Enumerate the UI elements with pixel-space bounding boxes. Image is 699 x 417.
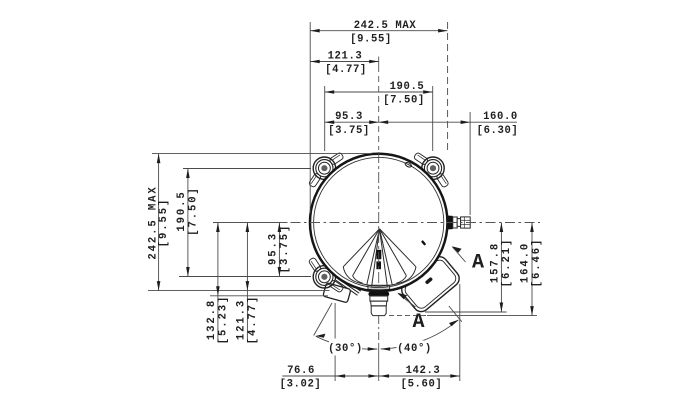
dimension line 76.6 + 142.3 (bottom) xyxy=(282,375,460,377)
svg-text:[3.02]: [3.02] xyxy=(280,379,322,391)
dimension line 242.5 MAX (top) xyxy=(310,30,447,32)
hidden bold dashes on axis xyxy=(376,250,381,259)
svg-text:242.5 MAX: 242.5 MAX xyxy=(354,20,417,32)
DIMENSIONS xyxy=(148,22,537,381)
angle arc arrows xyxy=(368,347,378,351)
suction stub fitting (bottom center) xyxy=(368,285,390,315)
dimension line 242.5 MAX (left vertical) xyxy=(158,154,160,291)
svg-text:[3.75]: [3.75] xyxy=(328,125,370,137)
angle dimension arc (30 deg) xyxy=(316,336,377,349)
svg-text:[6.46]: [6.46] xyxy=(531,238,543,288)
svg-text:121.3: 121.3 xyxy=(235,299,247,340)
bottom 76.6 xyxy=(335,374,345,378)
svg-text:[9.55]: [9.55] xyxy=(350,34,392,46)
svg-text:A: A xyxy=(412,311,424,334)
svg-text:132.8: 132.8 xyxy=(206,299,218,340)
svg-text:76.6: 76.6 xyxy=(287,365,315,377)
terminal box (40 deg position) xyxy=(395,249,463,315)
164.0 v xyxy=(530,223,534,233)
157.8 v xyxy=(500,223,504,233)
svg-text:157.8: 157.8 xyxy=(489,242,501,283)
section arrows A xyxy=(452,246,462,253)
extension line: shell right edge x=447.6 (dashed) xyxy=(447,22,449,150)
shell interior white fill xyxy=(311,155,446,290)
95.3 v xyxy=(278,223,282,233)
svg-text:(40°): (40°) xyxy=(397,343,432,355)
svg-text:121.3: 121.3 xyxy=(328,51,363,63)
compressor shell assembly (top view) xyxy=(300,144,462,315)
160.0 xyxy=(379,120,389,124)
svg-text:[7.50]: [7.50] xyxy=(383,95,425,107)
svg-text:95.3: 95.3 xyxy=(267,232,279,265)
190.5 xyxy=(325,90,335,94)
dimension line 121.3 (vertical) xyxy=(246,223,248,343)
extension line: right lug hole x=433 xyxy=(432,86,434,151)
svg-text:[5.60]: [5.60] xyxy=(401,379,443,391)
small dark tick on rim (lower right) xyxy=(421,240,426,246)
svg-text:164.0: 164.0 xyxy=(520,242,532,283)
section arrow A (lower) tail xyxy=(398,294,415,307)
process tube fitting (right, on centerline) xyxy=(447,216,471,230)
95.3 xyxy=(325,120,335,124)
svg-text:[6.21]: [6.21] xyxy=(501,238,513,288)
svg-text:[6.30]: [6.30] xyxy=(477,125,519,137)
bottom 142.3 xyxy=(380,374,390,378)
190.5 v xyxy=(186,169,190,179)
extension line: fitting tip x=470 xyxy=(469,112,471,215)
svg-text:(30°): (30°) xyxy=(328,343,363,355)
30 deg fitting axis line xyxy=(314,303,332,336)
dimension line 190.5 (top) xyxy=(325,91,433,93)
svg-text:[5.23]: [5.23] xyxy=(217,295,229,345)
extension line: shell left edge x=310 xyxy=(309,22,311,213)
mounting lugs (3x) with bolt holes xyxy=(300,144,456,300)
svg-text:190.5: 190.5 xyxy=(390,81,425,93)
dimension arrowheads xyxy=(157,29,534,378)
132.8 v xyxy=(216,223,220,233)
extension lines horizontal (left) xyxy=(152,153,372,155)
121.3 xyxy=(310,60,320,64)
left verticals 242.5 xyxy=(157,154,161,164)
extension lines right xyxy=(425,311,507,313)
small cover box (30 deg position) with strap lines xyxy=(323,275,362,303)
section arrow A (upper) tail xyxy=(453,247,466,262)
svg-text:[4.77]: [4.77] xyxy=(247,295,259,345)
svg-text:[7.50]: [7.50] xyxy=(187,186,199,236)
extension line: left lug hole x=325 xyxy=(324,86,326,151)
svg-text:142.3: 142.3 xyxy=(406,365,441,377)
top 242.5 xyxy=(310,29,320,33)
dimension line 121.3 (top) xyxy=(310,61,379,63)
center lines (horizontal + vertical dash-dot) xyxy=(213,57,540,382)
dimension line 164.0 (right vertical) xyxy=(531,223,533,316)
svg-text:A: A xyxy=(472,252,484,275)
svg-text:160.0: 160.0 xyxy=(483,111,518,123)
small oval weld mark on rim (upper right) xyxy=(404,162,412,168)
svg-text:95.3: 95.3 xyxy=(335,111,363,123)
dimension line 157.8 (right vertical) xyxy=(500,223,502,313)
dimension line 95.3 + 160.0 (top) xyxy=(325,121,517,123)
svg-text:[3.75]: [3.75] xyxy=(279,224,291,274)
svg-text:190.5: 190.5 xyxy=(176,190,188,231)
svg-text:[9.55]: [9.55] xyxy=(158,198,170,248)
shell outline xyxy=(310,154,448,292)
angle dimension arc (40 deg) xyxy=(381,320,459,349)
40 deg fitting axis line xyxy=(449,306,462,322)
dimension text labels xyxy=(148,20,543,391)
dimension line 132.8 (vertical) xyxy=(217,223,219,343)
stamped cone / funnel lines on shell top xyxy=(343,229,416,287)
dimension line 95.3 (left vertical) xyxy=(278,223,280,277)
121.3 v xyxy=(246,223,250,233)
dimension line 190.5 (left vertical) xyxy=(187,169,189,277)
svg-text:[4.77]: [4.77] xyxy=(325,64,367,76)
